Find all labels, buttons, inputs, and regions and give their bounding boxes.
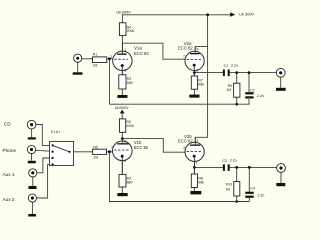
wire R3 to ground [121, 187, 123, 193]
wire V1a cathode lead [121, 66, 123, 75]
svg-text:200k: 200k [126, 124, 134, 128]
svg-text:V1a: V1a [134, 46, 142, 51]
node R10 bottom [235, 200, 238, 203]
top supply rail [122, 15, 233, 43]
capacitor C2 [245, 89, 264, 99]
anode riser net [195, 15, 207, 145]
ground CD [28, 137, 36, 139]
resistor R4 [119, 23, 134, 36]
wire V2a cathode lead [193, 66, 195, 77]
svg-text:2.2u: 2.2u [230, 158, 237, 162]
resistor R2 [119, 75, 133, 89]
wire switch to R5 [70, 151, 93, 153]
node R9 top [235, 71, 238, 74]
wire R7 to ground [193, 89, 195, 94]
svg-text:6: 6 [124, 139, 126, 143]
svg-text:S1A1: S1A1 [51, 130, 61, 134]
svg-text:2.2n: 2.2n [258, 194, 265, 198]
node R9 bottom [235, 103, 238, 106]
wire grid junction riser [108, 59, 110, 104]
resistor R3 [119, 174, 132, 187]
top ground bus [109, 99, 249, 104]
ground Aux2 [28, 214, 36, 217]
tube V1a [110, 43, 149, 75]
svg-text:2: 2 [183, 146, 185, 150]
wire bottom output ground lead [280, 172, 282, 183]
svg-text:68k: 68k [198, 83, 204, 87]
resistor R9 [226, 83, 240, 97]
node V2a cathode [193, 71, 196, 74]
wire V1b cathode lead [121, 157, 123, 175]
wire V1a anode to V2a grid [122, 43, 185, 59]
svg-text:680: 680 [127, 81, 133, 85]
wire R6 to V1b anode [121, 132, 123, 143]
svg-text:2.2u: 2.2u [231, 63, 238, 67]
wire R2 to ground [121, 89, 123, 95]
svg-text:CD: CD [4, 121, 11, 126]
connector output top [276, 68, 285, 77]
svg-text:3: 3 [195, 160, 197, 164]
wire Aux1 ground lead [32, 177, 34, 186]
ground R7 [189, 95, 199, 98]
resistor R5 [93, 145, 107, 159]
wire Aux2 ground lead [31, 202, 33, 214]
connector Aux1 [29, 169, 37, 177]
svg-text:Aux 1: Aux 1 [3, 172, 15, 177]
svg-text:1M: 1M [93, 155, 98, 159]
capacitor C3 [222, 158, 236, 171]
svg-text:2: 2 [110, 55, 112, 59]
wire V2b cathode to C3 [194, 166, 223, 168]
capacitor C1 [223, 63, 238, 76]
svg-text:Ub300V: Ub300V [116, 10, 131, 15]
svg-text:8: 8 [124, 159, 126, 163]
wire Aux1 to switch [37, 158, 53, 173]
wire R8 to ground [193, 188, 195, 192]
ground Aux1 [29, 186, 37, 189]
svg-text:1M: 1M [93, 64, 98, 68]
svg-text:1: 1 [196, 139, 198, 143]
wire Phone to switch [36, 150, 53, 151]
wire R1 to grid V1a [107, 58, 113, 60]
bottom ground bus [109, 152, 249, 202]
supply arrow top rail [230, 12, 235, 16]
wire input to R1 [82, 58, 93, 60]
wire R9 leads [236, 73, 238, 84]
resistor R7 [191, 76, 204, 89]
tube V2a [178, 41, 204, 76]
svg-text:Ub 300V: Ub 300V [239, 12, 255, 17]
svg-text:680: 680 [127, 181, 133, 185]
svg-text:C2: C2 [250, 89, 255, 93]
svg-text:Aux 2: Aux 2 [3, 197, 15, 202]
wire CD to switch [36, 125, 53, 146]
wire C3 to output [230, 166, 277, 168]
wire V2b anode lead [194, 144, 196, 147]
ground R2 [117, 95, 127, 98]
wire R5 to grid V1b [107, 151, 114, 153]
ground R3 [117, 193, 127, 196]
svg-text:ECC 82: ECC 82 [134, 145, 149, 150]
wire C1 to output [230, 72, 277, 74]
resistor R1 [93, 53, 107, 68]
node C2 top [248, 71, 251, 74]
node grid junction V1a [108, 57, 111, 60]
connector Phone [27, 145, 35, 153]
wire V2a anode jog [195, 47, 207, 53]
svg-text:R10: R10 [226, 183, 232, 187]
svg-text:ECC 82: ECC 82 [178, 46, 193, 51]
resistor R10 [225, 182, 240, 197]
resistor R6 [120, 119, 135, 132]
wire Phone ground lead [31, 154, 33, 161]
svg-text:68k: 68k [198, 181, 204, 185]
svg-text:ECC 82: ECC 82 [178, 139, 193, 144]
svg-text:1M: 1M [226, 88, 231, 92]
ground input connector top [73, 72, 83, 74]
supply arrow bottom channel [120, 110, 125, 114]
ground output connector bottom [276, 183, 285, 186]
switch S1 selector box [50, 130, 74, 166]
svg-text:R1: R1 [93, 53, 98, 57]
connector output bottom [277, 164, 286, 173]
ground output connector top [276, 88, 286, 91]
svg-text:Phone: Phone [3, 148, 17, 153]
node grid junction V1b [108, 150, 111, 153]
wire V2b cathode lead [193, 157, 195, 175]
tube V1b [111, 139, 149, 175]
svg-text:2.2n: 2.2n [257, 94, 264, 98]
connector CD [27, 120, 36, 129]
wire Aux2 to switch [36, 164, 52, 198]
wire V1b anode to V2b grid [122, 139, 185, 153]
svg-text:ECC 82: ECC 82 [134, 51, 149, 56]
node C4 top [248, 166, 251, 169]
ground R8 [190, 191, 201, 194]
svg-text:3: 3 [125, 68, 127, 72]
svg-text:1M: 1M [225, 187, 230, 191]
svg-text:200k: 200k [127, 29, 135, 33]
svg-text:Ub300V: Ub300V [115, 106, 129, 110]
node rail junction [206, 13, 209, 16]
wire V2a cathode to C1 [194, 72, 223, 74]
connector Aux2 [28, 194, 36, 202]
wire C2 leads [248, 73, 250, 93]
svg-text:C4: C4 [251, 186, 256, 190]
wire input connector ground lead [77, 62, 79, 72]
svg-text:8: 8 [196, 69, 198, 73]
wire output connector ground lead [280, 77, 282, 88]
ground Phone [28, 161, 36, 164]
wire V1a anode lead [121, 43, 123, 53]
node R10 top [235, 166, 238, 169]
wire Ub supply arrow lead bottom channel [121, 113, 123, 119]
svg-text:1: 1 [124, 48, 126, 52]
svg-text:C3: C3 [222, 159, 227, 163]
svg-text:7: 7 [183, 54, 185, 58]
node V2b cathode [193, 166, 196, 169]
tube V2b [178, 134, 204, 174]
node V1b anode [121, 137, 124, 140]
svg-text:C1: C1 [224, 64, 229, 68]
wire R10 leads [236, 167, 238, 181]
svg-text:7: 7 [111, 146, 113, 150]
resistor R8 [191, 174, 204, 188]
svg-text:R5: R5 [93, 145, 98, 149]
wire CD ground lead [31, 129, 33, 137]
capacitor C4 [245, 186, 264, 197]
svg-text:6: 6 [197, 48, 199, 52]
wire C4 leads [248, 167, 250, 191]
connector input top [74, 54, 82, 62]
